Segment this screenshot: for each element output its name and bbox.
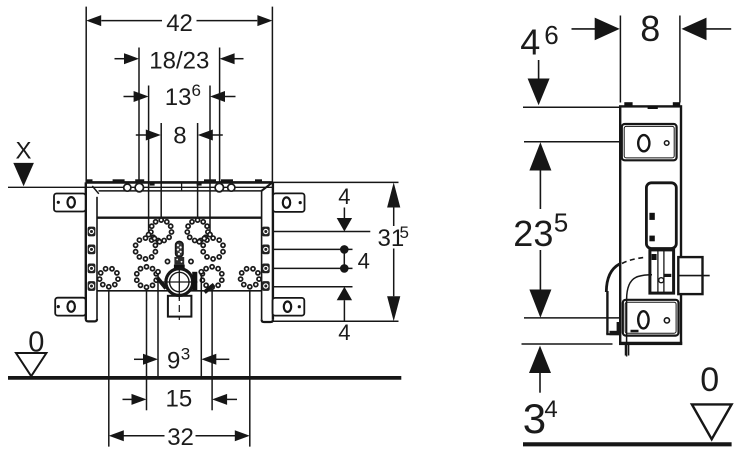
frame top edge <box>86 181 272 184</box>
hole bridge l2 <box>157 240 161 244</box>
dim 8 ext right <box>197 123 199 221</box>
dim 4b label <box>358 248 370 273</box>
svg-text:42: 42 <box>166 10 193 37</box>
ref line top right <box>272 181 398 183</box>
dim 93 label <box>167 345 190 375</box>
ref line upper oval <box>524 141 634 143</box>
ref line side bottom <box>522 343 613 345</box>
frame center tick <box>181 184 183 191</box>
dim 18/23 arrows <box>115 53 244 64</box>
ref line rail bottom <box>273 320 399 322</box>
ref line clip4 <box>273 286 353 288</box>
right rail clip 3 <box>262 264 270 274</box>
top anchor blob right <box>197 183 202 186</box>
ref line clip3 <box>273 267 353 269</box>
pipe inner vertical <box>626 300 628 357</box>
dim 8 label <box>173 122 186 149</box>
lower box dot <box>664 318 669 323</box>
frame top corner diag left <box>92 186 99 194</box>
dim 15 label <box>166 386 193 413</box>
dim 42 label <box>166 10 193 37</box>
lower box <box>623 300 679 336</box>
svg-text:X: X <box>16 138 32 165</box>
dim 8s arrows <box>572 18 732 41</box>
dim 42 ext right <box>271 7 273 183</box>
dim 93 arrows <box>134 354 229 365</box>
top tab 2 <box>113 179 125 183</box>
wall anchor line <box>678 275 709 277</box>
right rail clip 2 <box>262 245 270 255</box>
ref line side top <box>523 106 620 108</box>
X label <box>16 138 32 165</box>
drain box <box>168 296 192 317</box>
svg-text:5: 5 <box>400 223 409 242</box>
leader C <box>157 275 159 378</box>
leader A <box>108 290 110 446</box>
side rail body <box>620 106 681 344</box>
elbow clip <box>610 322 622 335</box>
hole ring lower-left <box>135 265 159 290</box>
svg-text:6: 6 <box>544 20 558 50</box>
frame top corner diag right <box>262 182 273 190</box>
dim 136 ext left <box>148 86 150 232</box>
top anchor blob left <box>150 183 155 186</box>
clamp lock bar <box>192 272 197 291</box>
zero label right <box>700 361 719 399</box>
hole bridge r2 <box>197 240 201 244</box>
svg-text:13: 13 <box>165 84 192 111</box>
upper box <box>622 124 677 160</box>
socket inner line right <box>663 250 665 294</box>
wall anchor square <box>678 257 702 294</box>
left rail clip 1 <box>88 227 96 237</box>
dim 315 arrow up <box>387 182 400 226</box>
hole ring mid-left <box>134 236 158 261</box>
dim 18/23 ext left <box>138 48 140 184</box>
svg-text:23: 23 <box>513 213 553 254</box>
svg-text:4: 4 <box>358 248 370 273</box>
channel <box>646 183 676 249</box>
hole bridge r1 <box>202 236 206 240</box>
ref line lower oval <box>524 317 634 319</box>
hole ring far-right <box>239 267 262 289</box>
elbow outer vertical <box>606 291 608 334</box>
zero label left <box>28 327 44 359</box>
X reference line <box>8 186 272 188</box>
ground line left <box>8 376 401 380</box>
clamp wedge left <box>157 278 166 289</box>
elbow bottom cap <box>606 333 620 335</box>
dim 32 line+arrows <box>109 430 250 441</box>
drain box centerline <box>178 298 180 321</box>
dim 235 arrow up <box>529 142 551 209</box>
ref line clip2 <box>273 248 353 250</box>
lower box notch <box>631 330 639 333</box>
right rail outline <box>262 182 273 322</box>
channel clip marks <box>649 213 654 242</box>
dim 18/23 label <box>149 48 209 75</box>
wing plate bottom-left <box>55 298 85 316</box>
svg-text:8: 8 <box>640 8 660 49</box>
dim 8 ext left <box>160 123 162 221</box>
hole ring mid-right <box>201 236 225 261</box>
dim 8s label <box>640 8 660 49</box>
side rail top tick <box>648 106 658 109</box>
top tab 6 <box>255 179 262 183</box>
dim 4b dots <box>340 245 349 273</box>
side rail top tab left <box>624 102 632 106</box>
pipe clamp inner <box>170 272 189 291</box>
top tab 1 <box>86 179 93 183</box>
hole 136 right <box>208 233 212 237</box>
leader B <box>146 290 148 410</box>
dim 34 arrow <box>529 346 551 393</box>
top circle 1 <box>124 184 131 191</box>
left rail clip 3 <box>88 264 96 274</box>
svg-text:0: 0 <box>700 361 719 399</box>
left rail outline <box>86 182 97 321</box>
svg-text:18/23: 18/23 <box>149 48 209 75</box>
dim 18/23 ext right <box>219 48 221 184</box>
ground line right <box>523 442 732 446</box>
dim 4a arrow <box>337 208 352 232</box>
clamp screw nut <box>174 257 184 265</box>
dim 46 arrow <box>528 60 550 105</box>
dim 235 label <box>513 208 568 254</box>
svg-text:4: 4 <box>520 22 540 63</box>
dim 4c arrow <box>337 287 352 321</box>
right rail clip 1 <box>262 227 270 237</box>
dim 315 label <box>378 223 409 252</box>
clamp screw flange <box>174 265 185 269</box>
ref line clip1 <box>273 231 370 233</box>
top tab 3 <box>135 179 144 183</box>
hole 93 right <box>199 270 203 274</box>
dim 8 arrows <box>136 130 223 141</box>
frame front top edge <box>99 190 262 192</box>
wing plate top-right <box>273 193 305 212</box>
zero triangle right <box>692 404 732 439</box>
dim 136 arrows <box>124 91 236 102</box>
dim 136 label <box>165 81 201 111</box>
dim 8s ext left <box>619 16 621 103</box>
dim 315 arrow down <box>387 249 400 322</box>
svg-text:3: 3 <box>523 395 546 442</box>
X triangle <box>13 163 34 186</box>
svg-text:5: 5 <box>554 208 568 238</box>
socket circle <box>659 278 664 283</box>
hole ring lower-right <box>200 265 224 290</box>
hole 93 left <box>156 270 160 274</box>
hole 136 left <box>147 233 151 237</box>
elbow hidden dashed arc <box>622 257 646 263</box>
svg-text:4: 4 <box>338 184 350 209</box>
elbow outer arc <box>606 264 619 292</box>
hole ring upper-left <box>149 218 174 243</box>
leader E <box>211 290 213 410</box>
pipe clamp crosshair <box>161 266 198 299</box>
svg-text:6: 6 <box>192 81 201 100</box>
top tab 5 <box>221 179 233 183</box>
dim 42 line+arrows <box>86 15 272 26</box>
left rail clip 2 <box>88 245 96 255</box>
dim 46 label <box>520 20 559 63</box>
clamp screw stem <box>176 241 183 257</box>
dim 4a label <box>338 184 350 209</box>
top circle 2 <box>135 183 143 191</box>
dim 8s ext right <box>679 16 681 103</box>
top circle 3 <box>215 183 223 191</box>
socket box <box>650 250 674 293</box>
top tab 4 <box>204 179 216 183</box>
svg-text:9: 9 <box>167 348 180 375</box>
svg-text:3: 3 <box>181 345 190 364</box>
hole stem left <box>165 259 169 263</box>
dim 4c label <box>338 320 350 345</box>
top circle 4 <box>228 184 235 191</box>
zero triangle left <box>16 353 46 376</box>
upper box oval <box>638 135 649 151</box>
upper box dot <box>664 141 669 146</box>
svg-text:4: 4 <box>338 320 350 345</box>
hole bridge l1 <box>152 236 156 240</box>
socket inner line left <box>657 250 659 294</box>
frame bottom bar edge <box>97 290 262 292</box>
leader D <box>200 275 202 378</box>
dim 42 ext left <box>85 7 87 183</box>
frame top bar bottom edge <box>97 217 262 219</box>
pipe outlet stub <box>626 345 629 356</box>
hole stem right <box>189 259 193 263</box>
side rail bottom edge <box>619 342 682 345</box>
dim 136 ext right <box>209 86 211 232</box>
svg-text:32: 32 <box>167 424 194 451</box>
svg-text:4: 4 <box>544 396 557 423</box>
dim 235 arrow down <box>529 250 551 318</box>
socket clip square <box>652 254 657 260</box>
svg-text:15: 15 <box>166 386 193 413</box>
lower box oval <box>638 311 648 328</box>
side rail top tab right <box>673 102 680 106</box>
right rail clip 4 <box>262 281 270 291</box>
clamp wedge right <box>205 285 215 293</box>
left rail clip 4 <box>88 281 96 291</box>
hole ring upper-right <box>185 218 210 243</box>
wing plate bottom-right <box>273 298 305 316</box>
dim 34 label <box>523 395 558 442</box>
wing plate top-left <box>54 194 86 212</box>
pipe clamp outer <box>166 269 193 296</box>
elbow inner arc <box>627 275 652 300</box>
leader F <box>249 290 251 446</box>
dim 15 arrows <box>123 394 238 405</box>
dim 32 label <box>167 424 194 451</box>
svg-text:8: 8 <box>173 122 186 149</box>
hole ring far-left <box>98 267 121 289</box>
socket dark band <box>664 274 671 277</box>
